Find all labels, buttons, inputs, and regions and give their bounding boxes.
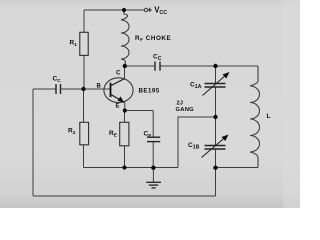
node RE ground rail	[122, 165, 126, 169]
svg-text:B: B	[97, 84, 102, 90]
resistor R2	[80, 122, 89, 145]
node top rail / choke	[122, 8, 126, 12]
node gang rotor	[213, 115, 217, 119]
wire R1 top lead	[83, 10, 85, 32]
wire emitter vertical	[124, 103, 126, 111]
node collector	[123, 64, 127, 68]
svg-text:GANG: GANG	[176, 107, 195, 113]
node C1B bottom	[213, 166, 217, 170]
wire Ce bottom stem	[152, 142, 154, 168]
node CE ground	[151, 166, 155, 170]
node base	[81, 87, 85, 91]
inductor L	[250, 66, 260, 168]
capacitor Cc top	[155, 62, 160, 71]
svg-text:E: E	[116, 104, 120, 110]
wire top rail from R1 to Vcc terminal	[84, 9, 144, 11]
wire C1B bottom stem to outer rail	[215, 149, 217, 196]
transistor Q1 BE195	[104, 78, 133, 103]
wire inner ground rail	[84, 167, 179, 169]
variable capacitor C1B	[202, 135, 229, 158]
node emitter	[123, 108, 127, 112]
capacitor CE	[147, 137, 160, 141]
node C1A top	[213, 64, 217, 68]
wire C1A to C1B middle stem	[215, 87, 217, 145]
svg-text:2J: 2J	[177, 101, 183, 107]
variable capacitor C1A	[203, 72, 230, 96]
wire ground stem	[152, 168, 154, 183]
wire Ce top stem	[152, 111, 154, 138]
capacitor Cc left	[56, 84, 61, 94]
wire left Cc to left vertical	[33, 88, 56, 90]
svg-text:C: C	[116, 71, 121, 77]
svg-text:BE195: BE195	[139, 88, 160, 95]
wire C1A top stem	[215, 66, 217, 83]
wire gang rotor to ground rail	[178, 117, 216, 168]
wire collector node to top Cc	[125, 65, 156, 67]
wire R1 bottom lead to base node	[83, 55, 85, 89]
wire R2 top lead	[83, 89, 85, 122]
wire R2 bottom lead	[83, 145, 85, 168]
inductor RF choke	[121, 10, 129, 66]
resistor R1	[80, 32, 88, 55]
wire left vertical feedback	[32, 89, 34, 196]
wire collector vertical	[124, 66, 126, 79]
wire emitter node to Ce	[125, 110, 153, 112]
wire RE bottom lead	[124, 146, 126, 168]
wire RE top lead	[124, 111, 126, 123]
resistor RE	[120, 122, 129, 146]
terminal +Vcc	[144, 8, 147, 11]
ground	[146, 182, 161, 188]
wire outer bottom rail	[33, 195, 216, 197]
wire tank bottom rail	[216, 167, 259, 169]
wire base node to transistor base	[84, 88, 111, 90]
svg-text:L: L	[267, 113, 271, 120]
wire top Cc to tank top rail	[160, 65, 258, 67]
wire left Cc to base node	[61, 88, 84, 90]
